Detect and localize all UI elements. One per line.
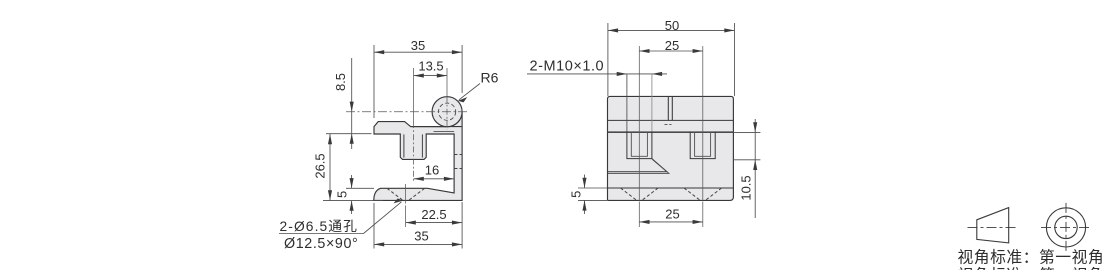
flange tangent line under knuckle: [411, 126, 462, 128]
svg-text:50: 50: [665, 18, 679, 33]
circle crosshair: [1041, 226, 1091, 228]
split center dash: [665, 124, 672, 126]
dimension 13.5: [414, 75, 447, 77]
band bottom line: [608, 119, 734, 121]
right view main block: [608, 96, 734, 200]
svg-text:8.5: 8.5: [333, 73, 348, 91]
recess double line with diagonal: [608, 159, 668, 172]
svg-text:22.5: 22.5: [421, 207, 446, 222]
knuckle vertical centerline: [446, 68, 448, 97]
svg-text:10.5: 10.5: [739, 175, 754, 200]
centerline hole 1 front view: [638, 46, 640, 200]
right slot: [690, 132, 715, 159]
dimension 22.5: [406, 202, 463, 249]
step line under knuckle: [434, 130, 455, 132]
knuckle split lines: [667, 96, 669, 120]
dimension 50: [608, 23, 735, 96]
countersink hidden lines front view left: [621, 188, 722, 200]
countersink centerline left view: [405, 184, 407, 204]
svg-text:13.5: 13.5: [418, 59, 443, 74]
svg-text:视角标准：第一视角: 视角标准：第一视角: [958, 249, 1105, 267]
knuckle inner dashed circle: [439, 103, 456, 120]
M10 extension lines: [626, 74, 628, 132]
dimension 35 top: [374, 45, 462, 118]
trapezoid centerline: [968, 227, 1018, 229]
left slot: [627, 132, 652, 159]
svg-text:2-M10×1.0: 2-M10×1.0: [530, 59, 605, 75]
dimension 16: [414, 178, 455, 180]
svg-text:25: 25: [665, 38, 679, 53]
dimension 25 top: [639, 50, 703, 52]
svg-text:R6: R6: [481, 70, 499, 86]
dimension 5 left view: [346, 175, 374, 214]
left view body: [374, 112, 462, 201]
dimension 35 bottom: [374, 203, 462, 249]
svg-text:5: 5: [569, 191, 584, 198]
svg-text:Ø12.5×90°: Ø12.5×90°: [284, 236, 358, 252]
dimension 10.5: [733, 119, 760, 218]
svg-text:25: 25: [665, 207, 679, 222]
stud thread lines: [403, 134, 405, 157]
knuckle circle: [432, 97, 462, 127]
centerline hole 2 front view: [702, 46, 704, 200]
dimension 8.5: [326, 58, 372, 149]
svg-text:视角标准：第一视角: 视角标准：第一视角: [958, 267, 1105, 270]
svg-text:35: 35: [411, 38, 425, 53]
first angle projection trapezoid: [977, 208, 1009, 243]
plate top line front view: [608, 187, 734, 189]
svg-text:26.5: 26.5: [313, 153, 328, 178]
countersink hidden lines left view: [387, 188, 425, 200]
stud centerline: [413, 68, 415, 122]
hidden dashes in wall: [454, 154, 462, 156]
dimension 26.5: [323, 134, 383, 201]
svg-text:16: 16: [425, 163, 439, 178]
svg-text:2-Ø6.5通孔: 2-Ø6.5通孔: [280, 219, 359, 234]
projection circles: [1046, 208, 1085, 247]
dimension 5 front view: [578, 175, 608, 215]
svg-text:35: 35: [414, 228, 428, 243]
dimension 25 bottom: [639, 221, 703, 223]
knuckle horizontal centerline: [346, 111, 467, 113]
svg-text:5: 5: [335, 191, 350, 198]
flange front thick line: [608, 131, 734, 133]
